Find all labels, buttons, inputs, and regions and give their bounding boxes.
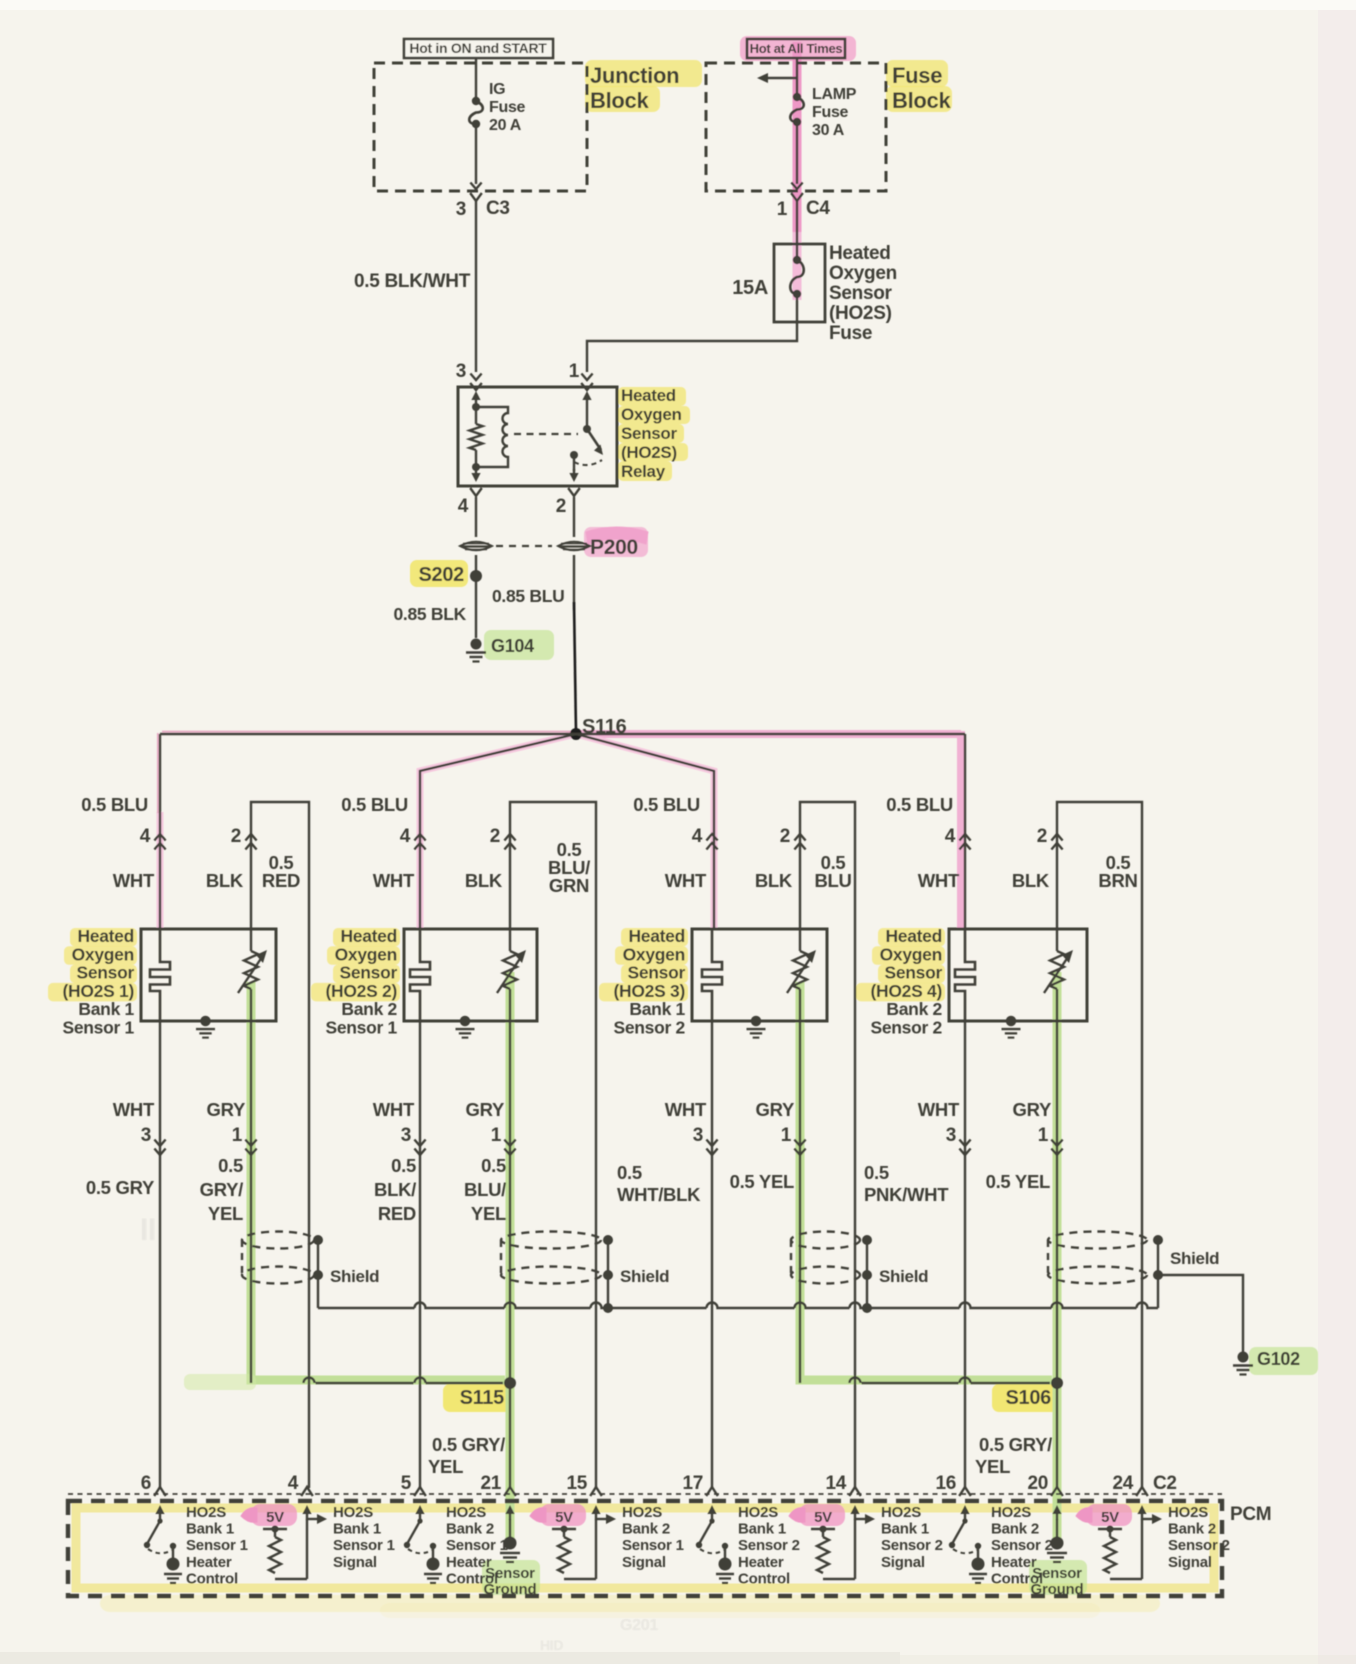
svg-text:Sensor 2: Sensor 2 [613,1018,685,1038]
svg-text:Heater: Heater [991,1554,1037,1571]
svg-text:1: 1 [777,199,788,220]
wire: loop 3 pin2 to PCM [800,802,855,1488]
svg-text:0.5 YEL: 0.5 YEL [730,1171,794,1192]
svg-text:Control: Control [186,1570,238,1587]
svg-text:Bank 1: Bank 1 [78,999,134,1019]
svg-text:0.5 GRY: 0.5 GRY [86,1177,155,1198]
svg-text:YEL: YEL [428,1456,463,1477]
svg-text:C3: C3 [486,198,510,219]
highlighter: S115 [443,1384,512,1412]
svg-text:Bank 1: Bank 1 [881,1521,929,1538]
svg-text:Fuse: Fuse [829,323,872,344]
wire: HO2S 4 pin 3 to PCM [964,1021,966,1488]
wire: relay pin2 down [573,497,575,537]
svg-text:Oxygen: Oxygen [72,944,134,964]
svg-text:Ground: Ground [484,1581,537,1598]
highlighter: G102 [1249,1347,1318,1375]
5V pull-up pin 15 [595,1509,597,1520]
splice S116 [570,728,582,740]
svg-text:G104: G104 [491,636,534,656]
heater element HO2S 3 [702,929,722,1021]
svg-text:Heated: Heated [829,243,891,264]
svg-text:S202: S202 [418,564,464,586]
highlighter: sensor label block [333,928,400,947]
highlighter: faint marker edge on left S116 bus [162,731,572,733]
svg-text:Heated: Heated [621,386,676,405]
svg-text:Sensor 2: Sensor 2 [991,1537,1053,1554]
highlighter: 5V [540,1504,586,1526]
wire: loop 1 pin2 to PCM [251,802,309,1488]
PCM pin 15 [590,1487,602,1496]
svg-text:Bank 2: Bank 2 [341,999,397,1019]
svg-text:Signal: Signal [622,1554,666,1571]
wire: S116 to HO2S1 [159,734,161,929]
svg-text:ll: ll [140,1214,156,1247]
svg-text:(HO2S 3): (HO2S 3) [613,981,685,1001]
PCM pin 21 [504,1487,516,1496]
highlighter: Hot at All Times [740,36,856,61]
svg-text:Shield: Shield [879,1267,928,1286]
svg-text:WHT: WHT [918,870,960,891]
svg-text:Sensor 2: Sensor 2 [870,1018,942,1038]
svg-text:Sensor: Sensor [621,424,678,443]
fuse block (dashed box) [706,63,886,191]
svg-text:HO2S: HO2S [622,1504,662,1521]
svg-text:C2: C2 [1153,1473,1177,1494]
highlighter: 5V [1086,1504,1132,1526]
wire: HO2S 2 pin 3 to PCM [419,1021,421,1488]
heated oxygen sensor HO2S 3 (box) [692,929,827,1021]
svg-text:HID: HID [540,1637,563,1653]
fuse IG 20A [475,58,477,99]
highlighter: Junction Block label [585,60,702,87]
svg-text:Sensor: Sensor [627,963,685,983]
wire: shield bus to G102 [1158,1275,1243,1352]
svg-text:GRY: GRY [755,1099,794,1120]
svg-text:Sensor: Sensor [1032,1565,1082,1582]
svg-text:0.5 BLK/WHT: 0.5 BLK/WHT [354,271,471,292]
svg-text:4: 4 [288,1473,299,1494]
svg-text:Sensor 1: Sensor 1 [622,1537,684,1554]
svg-text:Sensor 1: Sensor 1 [446,1537,508,1554]
svg-text:0.5 BLU: 0.5 BLU [341,794,408,815]
svg-text:4: 4 [945,826,956,847]
svg-text:Signal: Signal [881,1554,925,1571]
sensor internal ground HO2S 4 [1006,1016,1016,1026]
heater control driver pin 17 [711,1509,713,1520]
highlighter: Sensor Ground labels [482,1560,540,1595]
svg-text:17: 17 [682,1473,703,1494]
relay pin 3 [470,374,481,381]
svg-text:4: 4 [692,826,703,847]
svg-text:Bank 1: Bank 1 [333,1521,381,1538]
heater control driver pin 16 [964,1509,966,1520]
svg-text:S115: S115 [460,1387,505,1409]
svg-text:Sensor 1: Sensor 1 [62,1018,134,1038]
svg-text:IG: IG [489,81,505,98]
svg-text:Heated: Heated [77,926,134,946]
wire: S116 to HO2S4 [964,734,966,929]
svg-text:3: 3 [456,199,466,220]
shield drain to bus [317,1275,319,1308]
sensing element (variable resistor) HO2S 3 [799,929,801,951]
svg-text:5V: 5V [814,1509,832,1526]
heater control driver pin 5 [419,1509,421,1520]
wire: relay pin4 down [475,497,477,537]
wire: loop 4 pin2 to PCM [1057,802,1142,1488]
svg-text:Bank 1: Bank 1 [738,1521,786,1538]
svg-text:Shield: Shield [1170,1249,1219,1268]
wire: shield drain bus [318,1303,1158,1309]
scan bleed-through artifacts [140,1214,658,1653]
svg-text:S106: S106 [1005,1387,1051,1409]
svg-text:WHT: WHT [373,1099,415,1120]
wire: 0.85 BLU relay pin2 to S116 (pen retrace) [573,555,575,610]
svg-text:6: 6 [141,1473,151,1494]
svg-text:Oxygen: Oxygen [335,944,397,964]
ground G102 [1238,1352,1249,1363]
highlighter: S106 [992,1384,1060,1412]
svg-text:Block: Block [892,88,951,113]
svg-text:Control: Control [738,1570,790,1587]
svg-text:0.5 YEL: 0.5 YEL [986,1171,1050,1192]
heater element HO2S 2 [410,929,430,1021]
svg-text:20 A: 20 A [489,117,522,134]
highlighter: sensor label block [878,928,945,947]
svg-text:3: 3 [401,1125,411,1146]
svg-text:Oxygen: Oxygen [621,405,682,424]
svg-text:Sensor: Sensor [76,963,134,983]
highlighter: G104 [484,630,554,660]
svg-text:Sensor: Sensor [829,283,893,304]
label: Hot at All Times [747,39,845,58]
svg-text:Sensor: Sensor [884,963,942,983]
svg-text:Bank 2: Bank 2 [1168,1521,1216,1538]
svg-text:2: 2 [231,826,241,847]
svg-text:20: 20 [1027,1473,1048,1494]
svg-text:Heater: Heater [186,1554,232,1571]
svg-text:Signal: Signal [333,1554,377,1571]
wire: S116 to HO2S2 [420,734,576,929]
svg-text:Hot at All Times: Hot at All Times [750,41,843,56]
svg-text:16: 16 [935,1473,956,1494]
PCM pin 17 [706,1487,718,1496]
junction block (dashed box) [374,63,587,191]
shield drain to bus [866,1275,868,1308]
svg-text:Oxygen: Oxygen [623,944,685,964]
svg-text:WHT/BLK: WHT/BLK [617,1184,701,1205]
relay pin 4 [475,468,477,478]
svg-text:BLK: BLK [755,870,793,891]
svg-text:HO2S: HO2S [186,1504,226,1521]
svg-text:0.5: 0.5 [617,1162,642,1183]
shield drain to bus [1157,1275,1159,1308]
svg-text:Fuse: Fuse [892,63,942,88]
wire: HO2S 3 pin 3 to PCM [711,1021,713,1488]
relay HO2S (box) [458,387,617,486]
svg-text:5: 5 [401,1473,412,1494]
svg-text:3: 3 [456,361,466,382]
splice S202 [475,555,477,638]
fuse LAMP 30A [796,58,798,95]
svg-text:BLK/: BLK/ [374,1179,416,1200]
svg-text:Bank 2: Bank 2 [886,999,942,1019]
sensor internal ground HO2S 1 [200,1016,210,1026]
wire: HO2S1 pin1 0.5 GRY/YEL to S115 [250,1021,252,1383]
splice S115 [504,1377,516,1389]
svg-text:HO2S: HO2S [738,1504,778,1521]
svg-text:0.5: 0.5 [391,1155,416,1176]
svg-text:Heater: Heater [738,1554,784,1571]
sensor ground pin 21 [509,1509,511,1520]
svg-text:BLK: BLK [465,870,503,891]
svg-text:Hot in ON and START: Hot in ON and START [409,40,547,56]
heater control driver pin 6 [159,1509,161,1520]
svg-text:2: 2 [780,826,790,847]
svg-text:Junction: Junction [590,63,679,88]
highlighter: lamp fuse feed wire [793,42,802,232]
PCM pin 4 [301,1487,313,1496]
svg-text:0.5 BLU: 0.5 BLU [886,794,953,815]
svg-text:Oxygen: Oxygen [829,263,897,284]
PCM pin 5 [414,1487,426,1496]
shield HO2S 4 signal wire [1048,1232,1147,1249]
relay switch [586,405,588,427]
5V pull-up pin 4 [306,1509,308,1520]
svg-text:4: 4 [458,496,469,517]
svg-text:5V: 5V [266,1509,284,1526]
svg-text:2: 2 [1037,826,1047,847]
svg-text:0.5 BLU: 0.5 BLU [633,794,700,815]
svg-text:PCM: PCM [1230,1504,1271,1525]
svg-text:YEL: YEL [208,1203,243,1224]
svg-text:3: 3 [141,1125,151,1146]
PCM pin 16 [959,1487,971,1496]
svg-text:Sensor: Sensor [485,1565,535,1582]
svg-text:WHT: WHT [665,870,707,891]
connector P200 [460,542,492,551]
wire: loop 2 pin2 to PCM [510,802,596,1488]
wire: HO2S4 pin1 0.5 GRY/YEL sensor ground [1056,1021,1058,1488]
highlighter: PCM box outline [76,1508,1214,1588]
connector C4 pin 1 [791,183,802,190]
svg-text:Sensor 1: Sensor 1 [333,1537,395,1554]
svg-text:PNK/WHT: PNK/WHT [864,1184,949,1205]
ground G104 [471,639,482,650]
svg-text:GRY/: GRY/ [200,1179,244,1200]
svg-text:0.5 BLU: 0.5 BLU [81,794,148,815]
sensor ground pin 20 [1056,1509,1058,1520]
svg-text:0.5 GRY/: 0.5 GRY/ [979,1434,1052,1455]
relay pin 2 [573,469,575,478]
shield HO2S 3 signal wire [791,1232,860,1249]
svg-text:Sensor 2: Sensor 2 [881,1537,943,1554]
svg-text:5V: 5V [1101,1509,1119,1526]
PCM pin 20 [1051,1487,1063,1496]
svg-text:(HO2S 2): (HO2S 2) [325,981,397,1001]
wire: HO2S 1 pin 3 to PCM [159,1021,161,1488]
svg-text:GRY: GRY [465,1099,504,1120]
svg-text:HO2S: HO2S [991,1504,1031,1521]
svg-text:GRY: GRY [206,1099,245,1120]
fuse HO2S 15A [774,244,825,322]
highlighter: Fuse Block label [886,60,948,87]
wire: S116 bus [160,733,576,735]
svg-text:WHT: WHT [918,1099,960,1120]
svg-text:BRN: BRN [1098,870,1137,891]
svg-text:Sensor 2: Sensor 2 [1168,1537,1230,1554]
sensing element (variable resistor) HO2S 1 [250,929,252,951]
svg-text:0.5: 0.5 [481,1155,506,1176]
svg-text:2: 2 [556,496,566,517]
svg-text:2: 2 [490,826,500,847]
svg-text:Sensor 2: Sensor 2 [738,1537,800,1554]
splice S106 [1051,1377,1063,1389]
highlighter: sensor label block [70,928,137,947]
svg-text:3: 3 [946,1125,956,1146]
svg-text:GRN: GRN [549,875,589,896]
sensor internal ground HO2S 3 [751,1016,761,1026]
svg-text:4: 4 [400,826,411,847]
svg-text:24: 24 [1112,1473,1133,1494]
svg-text:HO2S: HO2S [1168,1504,1208,1521]
svg-text:0.5: 0.5 [864,1162,889,1183]
shield HO2S 1 signal wire [242,1232,314,1249]
svg-text:C4: C4 [806,198,830,219]
highlighter: relay label [618,387,686,406]
svg-text:Fuse: Fuse [489,99,526,116]
svg-text:(HO2S): (HO2S) [621,443,677,462]
shield HO2S 2 signal wire [501,1232,601,1249]
svg-text:Bank 1: Bank 1 [186,1521,234,1538]
svg-text:WHT: WHT [373,870,415,891]
svg-text:Fuse: Fuse [812,104,849,121]
svg-text:WHT: WHT [113,870,155,891]
svg-text:Sensor 1: Sensor 1 [186,1537,248,1554]
highlighter: sensor label block [621,928,688,947]
svg-text:Bank 2: Bank 2 [622,1521,670,1538]
svg-text:G201: G201 [620,1617,658,1634]
wire: S116 to HO2S3 [576,734,714,929]
heated oxygen sensor HO2S 2 (box) [404,929,537,1021]
PCM pin 24 [1136,1487,1148,1496]
wire: HO2S2 pin1 0.5 BLU/YEL sensor ground [509,1021,511,1488]
highlighter: S202 [410,560,468,587]
svg-text:1: 1 [1038,1125,1049,1146]
wire: HO2S fuse to relay pin 1 [587,322,797,372]
svg-text:0.85 BLU: 0.85 BLU [492,586,565,606]
svg-text:Bank 2: Bank 2 [991,1521,1039,1538]
svg-text:Shield: Shield [330,1267,379,1286]
svg-text:Heated: Heated [885,926,942,946]
heated oxygen sensor HO2S 4 (box) [949,929,1087,1021]
sensing element (variable resistor) HO2S 2 [509,929,511,951]
svg-text:G102: G102 [1257,1349,1300,1369]
svg-text:1: 1 [232,1125,243,1146]
svg-text:15: 15 [566,1473,587,1494]
svg-text:BLU: BLU [814,870,851,891]
svg-text:RED: RED [378,1203,416,1224]
svg-text:LAMP: LAMP [812,86,857,103]
svg-text:30 A: 30 A [812,122,845,139]
svg-text:1: 1 [491,1125,502,1146]
highlighter: S116 feed branches [577,730,961,738]
svg-text:14: 14 [825,1473,846,1494]
svg-text:YEL: YEL [975,1456,1010,1477]
svg-text:0.5: 0.5 [218,1155,243,1176]
svg-text:Heated: Heated [628,926,685,946]
svg-text:Sensor 1: Sensor 1 [325,1018,397,1038]
sensing element (variable resistor) HO2S 4 [1056,929,1058,951]
svg-text:0.5 GRY/: 0.5 GRY/ [432,1434,505,1455]
svg-text:Heated: Heated [340,926,397,946]
svg-text:BLU/: BLU/ [464,1179,506,1200]
svg-text:Signal: Signal [1168,1554,1212,1571]
highlighter: sensor ground wires [506,972,515,1542]
highlighter: P200 [584,527,648,557]
svg-text:BLK: BLK [206,870,244,891]
svg-text:HO2S: HO2S [881,1504,921,1521]
PCM pin 6 [154,1487,166,1496]
svg-text:Bank 1: Bank 1 [629,999,685,1019]
svg-text:Bank 2: Bank 2 [446,1521,494,1538]
svg-text:Shield: Shield [620,1267,669,1286]
svg-text:3: 3 [693,1125,703,1146]
connector C3 pin 3 [470,183,481,190]
svg-text:0.85 BLK: 0.85 BLK [394,604,467,624]
svg-text:P200: P200 [590,536,638,559]
svg-text:HO2S: HO2S [333,1504,373,1521]
svg-text:1: 1 [569,361,580,382]
svg-text:(HO2S 4): (HO2S 4) [870,981,942,1001]
svg-text:GRY: GRY [1012,1099,1051,1120]
wire: C4 to HO2S fuse [796,201,798,244]
5V pull-up pin 24 [1141,1509,1143,1520]
svg-text:Oxygen: Oxygen [880,944,942,964]
highlighter: 5V [799,1504,845,1526]
relay pin 1 [581,374,592,381]
PCM (dashed box) [68,1501,1222,1596]
shield drain to bus [607,1275,609,1308]
wire: 0.5 BLK/WHT C3 to relay [475,201,477,372]
svg-text:HO2S: HO2S [446,1504,486,1521]
highlighter: 5V [251,1504,297,1526]
heater element HO2S 1 [150,929,170,1021]
relay coil circuit [475,405,477,424]
PCM pin 14 [849,1487,861,1496]
svg-text:Sensor: Sensor [339,963,397,983]
svg-text:15A: 15A [732,277,768,299]
label: Hot in ON and START [404,39,553,58]
5V pull-up pin 14 [854,1509,856,1520]
svg-text:WHT: WHT [665,1099,707,1120]
svg-text:WHT: WHT [113,1099,155,1120]
heated oxygen sensor HO2S 1 (box) [141,929,276,1021]
svg-text:Ground: Ground [1031,1581,1084,1598]
svg-text:(HO2S): (HO2S) [829,303,892,324]
heater element HO2S 4 [955,929,975,1021]
svg-text:RED: RED [262,870,300,891]
wire: feed arrow to other circuits [764,77,797,79]
svg-text:1: 1 [781,1125,792,1146]
svg-text:Relay: Relay [621,462,666,481]
sensor internal ground HO2S 2 [460,1016,470,1026]
PCM connector edge (thin dashed) [68,1493,1222,1495]
svg-text:4: 4 [140,826,151,847]
svg-text:Block: Block [590,88,649,113]
wire: HO2S3 pin1 0.5 YEL to S106 [799,1021,801,1383]
svg-text:(HO2S 1): (HO2S 1) [62,981,134,1001]
